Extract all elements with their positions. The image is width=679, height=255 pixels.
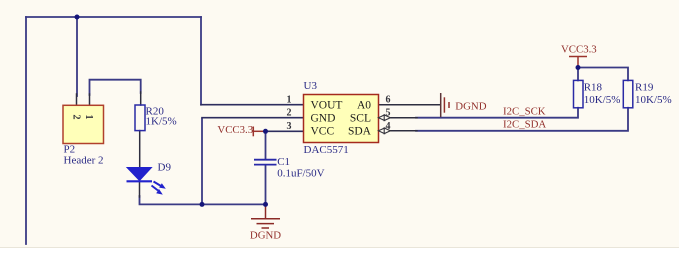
svg-text:1K/5%: 1K/5% — [146, 116, 177, 128]
svg-text:10K/5%: 10K/5% — [635, 94, 672, 106]
svg-text:1: 1 — [83, 115, 94, 120]
svg-text:R18: R18 — [584, 82, 603, 94]
svg-text:VCC3.3: VCC3.3 — [217, 124, 253, 136]
svg-text:10K/5%: 10K/5% — [584, 94, 621, 106]
svg-text:VCC3.3: VCC3.3 — [561, 44, 597, 56]
svg-text:A0: A0 — [357, 100, 371, 112]
svg-text:DGND: DGND — [250, 230, 281, 242]
svg-text:GND: GND — [311, 113, 336, 125]
svg-text:1: 1 — [287, 95, 292, 106]
svg-text:DGND: DGND — [455, 101, 486, 113]
svg-text:2: 2 — [70, 115, 81, 120]
svg-text:3: 3 — [287, 121, 292, 132]
svg-text:Header 2: Header 2 — [64, 155, 104, 167]
svg-text:U3: U3 — [304, 80, 318, 92]
svg-text:VCC: VCC — [311, 126, 335, 138]
svg-text:SCL: SCL — [350, 113, 371, 125]
svg-text:VOUT: VOUT — [311, 100, 343, 112]
svg-text:D9: D9 — [158, 162, 172, 174]
svg-text:I2C_SDA: I2C_SDA — [503, 119, 546, 131]
svg-text:DAC5571: DAC5571 — [304, 144, 349, 156]
svg-text:2: 2 — [287, 108, 292, 119]
svg-text:6: 6 — [386, 95, 391, 106]
svg-text:0.1uF/50V: 0.1uF/50V — [277, 167, 324, 179]
svg-text:I2C_SCK: I2C_SCK — [503, 106, 546, 118]
svg-text:SDA: SDA — [348, 126, 372, 138]
svg-text:R19: R19 — [635, 82, 654, 94]
